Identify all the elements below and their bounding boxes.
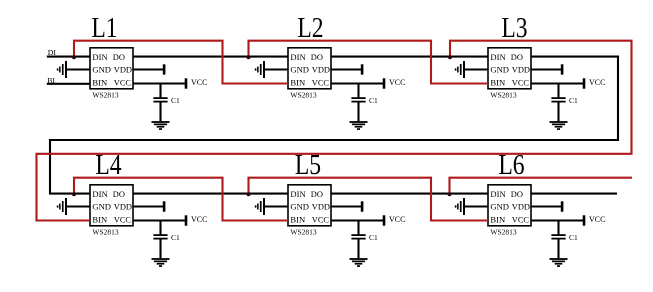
svg-text:DIN: DIN (490, 52, 506, 62)
capacitor C1 of L6 (551, 221, 578, 243)
svg-text:VCC: VCC (512, 79, 530, 88)
svg-text:DO: DO (311, 190, 323, 199)
svg-text:VCC: VCC (191, 215, 207, 224)
wire red: DIN node of L6 output (450, 178, 633, 194)
ground (earth under C1 of L3) (550, 102, 568, 129)
svg-text:L1: L1 (91, 12, 117, 44)
terminal VDD pin of L4 (133, 201, 165, 211)
svg-text:VCC: VCC (312, 79, 330, 88)
svg-text:DO: DO (113, 53, 125, 62)
svg-text:C1: C1 (369, 233, 378, 242)
IC U1 WS2813 (L1) (90, 48, 133, 100)
wire BI input to BIN of L1 (47, 83, 90, 85)
port label DI (48, 48, 57, 57)
IC U4 WS2813 (L4) (90, 185, 133, 237)
svg-text:GND: GND (490, 201, 509, 211)
port label BI (47, 76, 55, 85)
power port VCC of L5 (331, 215, 405, 226)
svg-text:VDD: VDD (114, 65, 132, 74)
svg-text:BIN: BIN (92, 78, 108, 88)
ground (earth at GND pin of L1) (57, 61, 67, 78)
ground (earth under C1 of L6) (550, 239, 568, 267)
capacitor C1 of L2 (351, 84, 378, 106)
svg-text:VCC: VCC (191, 78, 207, 87)
wire GND pin of L4 (67, 205, 90, 207)
wire DI input to DIN of L1 (47, 56, 90, 58)
node junction J3 (red tap on data line) (448, 55, 452, 59)
wire DO of L4 to DIN of L5 (133, 193, 288, 195)
wire GND pin of L5 (265, 205, 288, 207)
IC U5 WS2813 (L5) (288, 185, 331, 237)
ground (earth at GND pin of L6) (455, 198, 465, 215)
label L2 (297, 12, 323, 44)
svg-text:BIN: BIN (290, 215, 306, 225)
label L3 (501, 12, 527, 44)
capacitor C1 of L3 (551, 84, 578, 106)
svg-text:C1: C1 (171, 96, 180, 105)
svg-text:VCC: VCC (389, 78, 405, 87)
svg-text:BIN: BIN (92, 215, 108, 225)
svg-text:VCC: VCC (312, 216, 330, 225)
svg-text:L2: L2 (297, 12, 323, 44)
IC U6 WS2813 (L6) (488, 185, 531, 237)
wire GND pin of L1 (67, 68, 90, 70)
ground (earth under C1 of L1) (152, 102, 170, 129)
wire GND pin of L3 (465, 68, 488, 70)
IC U3 WS2813 (L3) (488, 48, 531, 100)
ground (earth at GND pin of L2) (255, 61, 265, 78)
svg-text:DO: DO (511, 190, 523, 199)
svg-text:BIN: BIN (490, 215, 506, 225)
capacitor C1 of L5 (351, 221, 378, 243)
svg-text:VDD: VDD (512, 65, 530, 74)
svg-text:WS2813: WS2813 (490, 228, 517, 237)
svg-text:VDD: VDD (312, 65, 330, 74)
ground (earth under C1 of L2) (350, 102, 368, 129)
svg-text:C1: C1 (569, 233, 578, 242)
power port VCC of L1 (133, 78, 207, 89)
svg-text:VCC: VCC (114, 216, 132, 225)
svg-text:GND: GND (490, 64, 509, 74)
svg-text:VCC: VCC (589, 215, 605, 224)
terminal VDD pin of L5 (331, 201, 363, 211)
svg-text:WS2813: WS2813 (92, 91, 119, 100)
wire GND pin of L2 (265, 68, 288, 70)
svg-text:DIN: DIN (92, 189, 108, 199)
wire red: DIN node of L3 around right edge to BIN of L4 (37, 41, 632, 221)
svg-text:VCC: VCC (389, 215, 405, 224)
capacitor C1 of L4 (153, 221, 180, 243)
wire GND pin of L6 (465, 205, 488, 207)
node junction J5 (red tap on data line) (246, 192, 250, 196)
power port VCC of L2 (331, 78, 405, 89)
svg-text:DO: DO (311, 53, 323, 62)
svg-text:VDD: VDD (312, 202, 330, 211)
ground (earth under C1 of L4) (152, 239, 170, 267)
svg-text:DIN: DIN (290, 52, 306, 62)
wire DO of L3 down and back to DIN of L4 (50, 57, 618, 194)
svg-text:GND: GND (290, 64, 309, 74)
ground (earth at GND pin of L5) (255, 198, 265, 215)
label L5 (295, 149, 321, 181)
svg-text:VCC: VCC (512, 216, 530, 225)
ground (earth under C1 of L5) (350, 239, 368, 267)
wire red: DIN node of L5 to BIN of L6 (249, 178, 489, 221)
svg-text:DO: DO (113, 190, 125, 199)
terminal VDD pin of L2 (331, 64, 363, 74)
label L1 (91, 12, 117, 44)
terminal VDD pin of L6 (531, 201, 563, 211)
ground (earth at GND pin of L3) (455, 61, 465, 78)
svg-text:C1: C1 (171, 233, 180, 242)
svg-text:DO: DO (511, 53, 523, 62)
svg-text:BIN: BIN (290, 78, 306, 88)
ground (earth at GND pin of L4) (57, 198, 67, 215)
svg-text:VCC: VCC (114, 79, 132, 88)
wire DO of L2 to DIN of L3 (331, 56, 488, 58)
svg-text:GND: GND (92, 201, 111, 211)
power port VCC of L4 (133, 215, 207, 226)
label L4 (95, 149, 121, 181)
svg-text:VDD: VDD (114, 202, 132, 211)
svg-text:BIN: BIN (490, 78, 506, 88)
svg-text:WS2813: WS2813 (92, 228, 119, 237)
svg-text:C1: C1 (369, 96, 378, 105)
node junction J6 (red tap on data line) (447, 192, 451, 196)
svg-text:VCC: VCC (589, 78, 605, 87)
node junction J1 (red tap on data line) (72, 55, 76, 59)
wire red: DIN node of L4 to BIN of L5 (74, 178, 288, 221)
label L6 (498, 149, 524, 181)
power port VCC of L6 (531, 215, 605, 226)
wire DO of L1 to DIN of L2 (133, 56, 288, 58)
svg-text:DIN: DIN (92, 52, 108, 62)
wire red: DIN node of L2 to BIN of L3 (249, 41, 489, 84)
svg-text:WS2813: WS2813 (290, 91, 317, 100)
terminal VDD pin of L1 (133, 64, 165, 74)
svg-text:VDD: VDD (512, 202, 530, 211)
svg-text:DIN: DIN (490, 189, 506, 199)
wire red: DIN node of L1 to BIN of L2 (74, 41, 288, 84)
svg-text:DI: DI (48, 48, 57, 57)
svg-text:DIN: DIN (290, 189, 306, 199)
node junction J4 (red tap on data line) (72, 192, 76, 196)
svg-text:L3: L3 (501, 12, 527, 44)
node junction J2 (red tap on data line) (246, 55, 250, 59)
svg-text:GND: GND (290, 201, 309, 211)
svg-text:WS2813: WS2813 (290, 228, 317, 237)
capacitor C1 of L1 (153, 84, 180, 106)
IC U2 WS2813 (L2) (288, 48, 331, 100)
wire DO of L5 to DIN of L6 (331, 193, 488, 195)
svg-text:C1: C1 (569, 96, 578, 105)
terminal VDD pin of L3 (531, 64, 563, 74)
wire DO of L6 output (531, 193, 617, 195)
svg-text:WS2813: WS2813 (490, 91, 517, 100)
svg-text:GND: GND (92, 64, 111, 74)
power port VCC of L3 (531, 78, 605, 89)
